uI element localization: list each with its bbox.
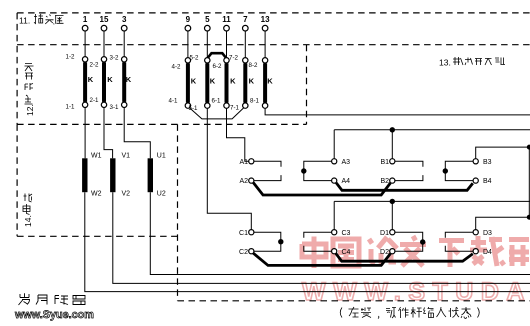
contact D4: [473, 249, 478, 254]
svg-text:V1: V1: [122, 153, 131, 160]
wire winding W2 to bottom bus: [85, 192, 530, 291]
svg-text:8-1: 8-1: [250, 98, 260, 105]
svg-text:11.: 11.: [19, 16, 30, 26]
svg-text:B1: B1: [380, 159, 389, 166]
contact 7-2: [243, 58, 248, 63]
watermark partial char at right edge: [509, 240, 529, 267]
svg-text:5-2: 5-2: [190, 55, 200, 62]
contact C2: [249, 249, 254, 254]
contact 7-1: [243, 103, 248, 108]
wire bus joining contacts 4-1 and 7-1: [189, 108, 244, 119]
wire terminal 13 to switch K8: [264, 31, 266, 58]
svg-text:B2: B2: [380, 178, 389, 185]
wire D3 riser to right edge: [476, 217, 530, 230]
wire contact 6-1 to microswitch contact A1: [227, 108, 249, 161]
switch K3 bar: [122, 62, 126, 102]
contact 6-1: [224, 103, 229, 108]
label box 14 电机 motor (vertical): [23, 194, 33, 228]
svg-text:B4: B4: [483, 178, 492, 185]
contact D1: [390, 230, 395, 235]
wire open bracket D3-D4: [445, 232, 473, 251]
contact 4-1: [185, 103, 190, 108]
wire mid rail of microswitch group C/D: [334, 200, 530, 202]
wire terminal 5 to switch K5: [206, 31, 208, 58]
svg-text:1-2: 1-2: [66, 54, 76, 61]
terminal 13: [262, 25, 268, 31]
contact 3-1: [122, 102, 127, 107]
svg-text:7-1: 7-1: [230, 105, 240, 112]
svg-text:8-2: 8-2: [249, 62, 259, 69]
svg-text:K: K: [267, 76, 273, 85]
svg-text:3-2: 3-2: [110, 55, 120, 62]
wire open bracket C3-C4: [304, 232, 332, 251]
watermark char 下: [439, 241, 464, 268]
switch K8 bar: [263, 63, 267, 102]
terminal 5: [205, 25, 211, 31]
watermark char 文: [400, 236, 426, 266]
wire terminal 1 to switch K1: [84, 31, 86, 57]
svg-text:3: 3: [122, 15, 127, 24]
contact 3-2: [122, 57, 127, 62]
wire winding V2 to bottom bus: [113, 192, 530, 283]
wire closed bracket D1-D2: [395, 232, 423, 251]
motor winding V1-V2: [110, 158, 115, 192]
wire terminal 7 to switch K7: [244, 31, 246, 58]
svg-text:www.Syue.com: www.Syue.com: [14, 309, 94, 321]
svg-text:K: K: [249, 76, 255, 85]
label box 13 微动开关组 microswitch group: [439, 57, 505, 68]
svg-text:13: 13: [261, 15, 270, 24]
contact 2-2: [101, 57, 106, 62]
contact 4-2: [185, 58, 190, 63]
contact A3: [332, 159, 337, 164]
wire right edge vertical: [528, 147, 530, 217]
box 12 bottom edge / box 14 top edge: [17, 123, 306, 125]
switch K1 bar: [83, 62, 87, 102]
box 11 plug socket top edge: [17, 12, 530, 14]
actuating lever A4 to B4: [336, 183, 473, 191]
junction on bracket D1-D2: [420, 239, 425, 244]
svg-text:5: 5: [205, 15, 210, 24]
contact A4: [332, 178, 337, 183]
terminal 9: [185, 25, 191, 31]
junction on bracket B3-B4: [443, 168, 448, 173]
svg-text:U1: U1: [157, 153, 166, 160]
svg-text:C2: C2: [239, 249, 248, 256]
wire B3 riser to right edge: [476, 147, 530, 159]
switch K4 bar: [186, 63, 190, 102]
junction mid rail to D1: [390, 199, 395, 204]
svg-text:15: 15: [100, 15, 109, 24]
svg-text:W1: W1: [91, 153, 102, 160]
contact 1-1: [82, 102, 87, 107]
svg-text:13.: 13.: [439, 58, 451, 68]
svg-text:2-2: 2-2: [90, 62, 100, 69]
wire open bracket B1-B2: [395, 161, 423, 180]
wire winding U2 to bottom bus: [150, 192, 530, 274]
svg-text:K: K: [107, 75, 113, 84]
box 11/12 divider dashed line: [17, 44, 530, 46]
svg-text:K: K: [88, 75, 94, 84]
label box 12 通断开关 on-off switch (vertical): [25, 64, 36, 117]
junction right edge upper: [527, 145, 530, 150]
note text 左装 动作杆缩入状态: [340, 307, 479, 319]
svg-text:2-1: 2-1: [90, 97, 100, 104]
watermark char 中: [302, 237, 326, 269]
contact 2-1: [101, 102, 106, 107]
wire closed bracket C1-C2: [254, 232, 281, 251]
contact 8-1: [262, 103, 267, 108]
terminal 1: [82, 25, 88, 31]
actuating lever C2 to D2: [253, 253, 390, 265]
svg-text:B3: B3: [483, 159, 492, 166]
box 13 bottom edge: [178, 300, 530, 302]
label box 11 插头座 plug socket: [19, 14, 64, 26]
svg-text:1: 1: [83, 15, 88, 24]
wire contact 3-1 to motor winding U1: [124, 107, 150, 158]
svg-text:W2: W2: [91, 190, 102, 197]
watermark char 国: [333, 239, 359, 266]
contact 8-2: [262, 58, 267, 63]
terminal 3: [121, 25, 127, 31]
svg-text:A1: A1: [239, 159, 248, 166]
wire terminal 3 to switch K3: [123, 31, 125, 57]
svg-text:D1: D1: [380, 230, 389, 237]
contact C4: [332, 249, 337, 254]
wire terminal 9 to switch K4: [187, 31, 189, 58]
svg-text:A3: A3: [342, 159, 351, 166]
junction on bracket A3-A4: [301, 168, 306, 173]
wire C3 riser to mid rail: [333, 201, 335, 229]
switch K7 bar: [243, 63, 247, 102]
wire B1 riser from top rail: [391, 130, 393, 159]
switch K6 bar: [225, 63, 229, 102]
wire closed bracket A3-A4: [304, 161, 332, 180]
contact 5-1: [205, 103, 210, 108]
terminal 15: [101, 25, 107, 31]
contact A2: [249, 178, 254, 183]
svg-text:D2: D2: [380, 249, 389, 256]
actuating lever A2 to B2: [253, 183, 390, 195]
switch K5 bar: [205, 63, 209, 102]
svg-text:3-1: 3-1: [110, 104, 120, 111]
wire contact 2-1 to motor winding V1: [104, 107, 113, 158]
box 12 right edge: [306, 45, 308, 125]
contact C1: [249, 230, 254, 235]
svg-text:6-2: 6-2: [213, 63, 223, 70]
box 14 motor bottom edge: [17, 235, 177, 237]
svg-text:A4: A4: [342, 178, 351, 185]
terminal 7: [243, 25, 249, 31]
wire contact 1-1 to motor winding W1: [84, 107, 86, 158]
svg-text:9: 9: [186, 15, 191, 24]
junction on bracket C1-C2: [278, 239, 283, 244]
wire thick link contacts 5-2 to 6-2: [207, 53, 226, 58]
svg-text:A2: A2: [239, 178, 248, 185]
svg-text:K: K: [210, 76, 216, 85]
wire terminal 15 to switch K2: [103, 31, 105, 57]
contact B2: [390, 178, 395, 183]
svg-text:C1: C1: [239, 230, 248, 237]
svg-text:12.: 12.: [25, 104, 35, 116]
wire contact 8-1 to right edge: [265, 108, 530, 115]
contact C3: [332, 230, 337, 235]
actuating lever C4 to D4: [336, 253, 473, 261]
svg-text:11: 11: [222, 15, 231, 24]
contact B1: [390, 159, 395, 164]
junction top rail to B1: [390, 127, 395, 132]
box 11+12 left edge: [16, 13, 18, 125]
contact D2: [390, 249, 395, 254]
contact D3: [473, 230, 478, 235]
svg-text:5-1: 5-1: [189, 105, 199, 112]
svg-text:C4: C4: [342, 249, 351, 256]
svg-text:D4: D4: [483, 249, 492, 256]
svg-text:7: 7: [243, 15, 248, 24]
svg-text:6-1: 6-1: [212, 98, 222, 105]
contact A1: [249, 159, 254, 164]
wire contact 5-1 to microswitch contact C1: [207, 108, 251, 229]
svg-text:14.: 14.: [23, 215, 33, 227]
watermark char 论: [369, 237, 397, 264]
svg-text:C3: C3: [342, 230, 351, 237]
wire open bracket A1-A2: [254, 161, 281, 180]
motor winding W1-W2: [82, 158, 87, 192]
wire top rail of microswitch group A/B: [334, 129, 530, 131]
box 14 motor left edge: [16, 124, 18, 236]
svg-text:1-1: 1-1: [66, 104, 76, 111]
svg-text:K: K: [191, 76, 197, 85]
wire A3 riser to top rail: [333, 130, 335, 159]
wire D1 riser from mid rail: [391, 201, 393, 229]
svg-text:K: K: [230, 76, 236, 85]
svg-text:K: K: [126, 75, 132, 84]
svg-text:D3: D3: [483, 230, 492, 237]
wire closed bracket B3-B4: [445, 161, 473, 180]
watermark char 载: [470, 236, 504, 266]
contact B4: [473, 178, 478, 183]
contact B3: [473, 159, 478, 164]
svg-text:V2: V2: [122, 190, 131, 197]
site mark 岁月联盟 (outlined): [19, 293, 86, 305]
switch K2 bar: [102, 62, 106, 102]
junction right edge lower: [527, 215, 530, 220]
wire terminal 11 to switch K6: [226, 31, 228, 58]
contact 5-2: [205, 58, 210, 63]
box 14 right edge / box 13 left edge: [177, 124, 179, 300]
svg-text:U2: U2: [157, 190, 166, 197]
svg-text:4-1: 4-1: [169, 98, 179, 105]
contact 6-2: [224, 58, 229, 63]
svg-text:7-2: 7-2: [229, 55, 239, 62]
contact 1-2: [82, 57, 87, 62]
motor winding U1-U2: [148, 158, 153, 192]
svg-text:4-2: 4-2: [172, 64, 182, 71]
terminal 11: [224, 25, 230, 31]
